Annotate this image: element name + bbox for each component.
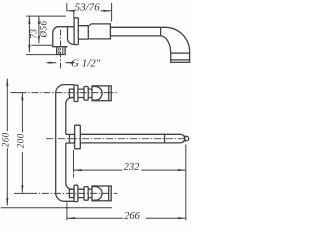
bottom valve neck (78, 189, 84, 197)
spout collar (side view) (88, 24, 110, 39)
svg-text:G 1/2": G 1/2" (71, 58, 101, 70)
top valve stem (88, 89, 92, 97)
G 1/2 label (71, 58, 101, 70)
extension line right of 53/76 (111, 3, 113, 22)
bottom valve sleeve (69, 189, 74, 197)
extension line 232 left (73, 150, 75, 178)
G1/2 threaded nipple (57, 47, 65, 55)
extension line right (185, 145, 187, 221)
dimension 266 line (67, 217, 123, 219)
dimension 266 text (124, 211, 141, 222)
spout sleeve (69, 134, 74, 143)
thread lines (59, 47, 63, 55)
svg-text:53/76: 53/76 (75, 2, 101, 14)
spout stub from pipe (66, 134, 70, 143)
extension line 266 left (66, 203, 68, 221)
spout tube (plan view) (80, 134, 184, 143)
connecting pipe outer edge (56, 85, 74, 202)
dimension text 53/76 (75, 2, 101, 14)
bottom valve handle dome (92, 187, 102, 201)
dimension Ø56 line (38, 17, 40, 44)
top valve neck (78, 89, 84, 97)
extension line 76 left (66, 3, 68, 11)
connecting pipe inner edge top (66, 98, 74, 135)
svg-text:200: 200 (16, 133, 26, 148)
top valve handle (92, 86, 111, 101)
spout flange (75, 125, 81, 149)
top valve flange (74, 85, 78, 101)
spout bend outer edge (161, 27, 190, 53)
spout neck (side view) (78, 26, 88, 39)
dimension line 53/76 (67, 10, 74, 12)
spout centerline (46, 138, 187, 140)
elbow centerline (60, 30, 62, 69)
extension line 53 left (73, 11, 75, 18)
G 1/2 dimension arrows (47, 62, 57, 64)
svg-text:266: 266 (124, 211, 141, 222)
spout tip (185, 136, 189, 141)
dimension 232 line (74, 169, 122, 171)
connecting pipe inner edge bottom (66, 143, 74, 189)
svg-text:260: 260 (0, 132, 10, 147)
inlet elbow (side view) (53, 27, 74, 47)
bottom valve handle cap line (108, 186, 110, 201)
dimension 200 line (21, 93, 23, 133)
top valve escutcheon (84, 87, 88, 101)
spout tube joint line (164, 134, 166, 143)
spout bend inner edge (161, 36, 171, 53)
extension line 73 bottom (26, 54, 57, 56)
extension line Ø56 bottom (31, 44, 53, 46)
svg-text:73: 73 (28, 29, 38, 39)
aerator seam (171, 59, 190, 61)
aerator (side view) (171, 53, 190, 62)
bottom extension line (1, 207, 112, 209)
dimension 232 text (124, 162, 141, 173)
top extension line for 73 and Ø56 (26, 15, 66, 17)
bottom valve handle (92, 186, 111, 201)
wall flange (side view) (74, 18, 78, 45)
bottom valve stem (88, 189, 92, 197)
dimension 200 text (16, 133, 26, 148)
bottom valve escutcheon (84, 187, 88, 201)
dimension 73 line (28, 17, 30, 53)
elbow joint line (67, 27, 69, 39)
tube joint line (160, 27, 162, 36)
bottom valve centerline (14, 192, 30, 194)
bottom valve flange (74, 185, 78, 201)
top valve handle cap line (108, 86, 110, 101)
svg-text:Ø56: Ø56 (39, 21, 49, 39)
dimension 73 text (28, 29, 38, 39)
svg-text:232: 232 (124, 162, 141, 173)
dimension 260 line (6, 79, 8, 132)
elbow fillet to flange (68, 39, 74, 45)
dimension 260 text (0, 132, 10, 147)
spout tube (side view) (110, 27, 160, 36)
top valve handle dome (92, 87, 102, 101)
top valve centerline (11, 92, 20, 94)
top valve sleeve (69, 89, 74, 97)
dimension Ø56 text (39, 21, 49, 39)
